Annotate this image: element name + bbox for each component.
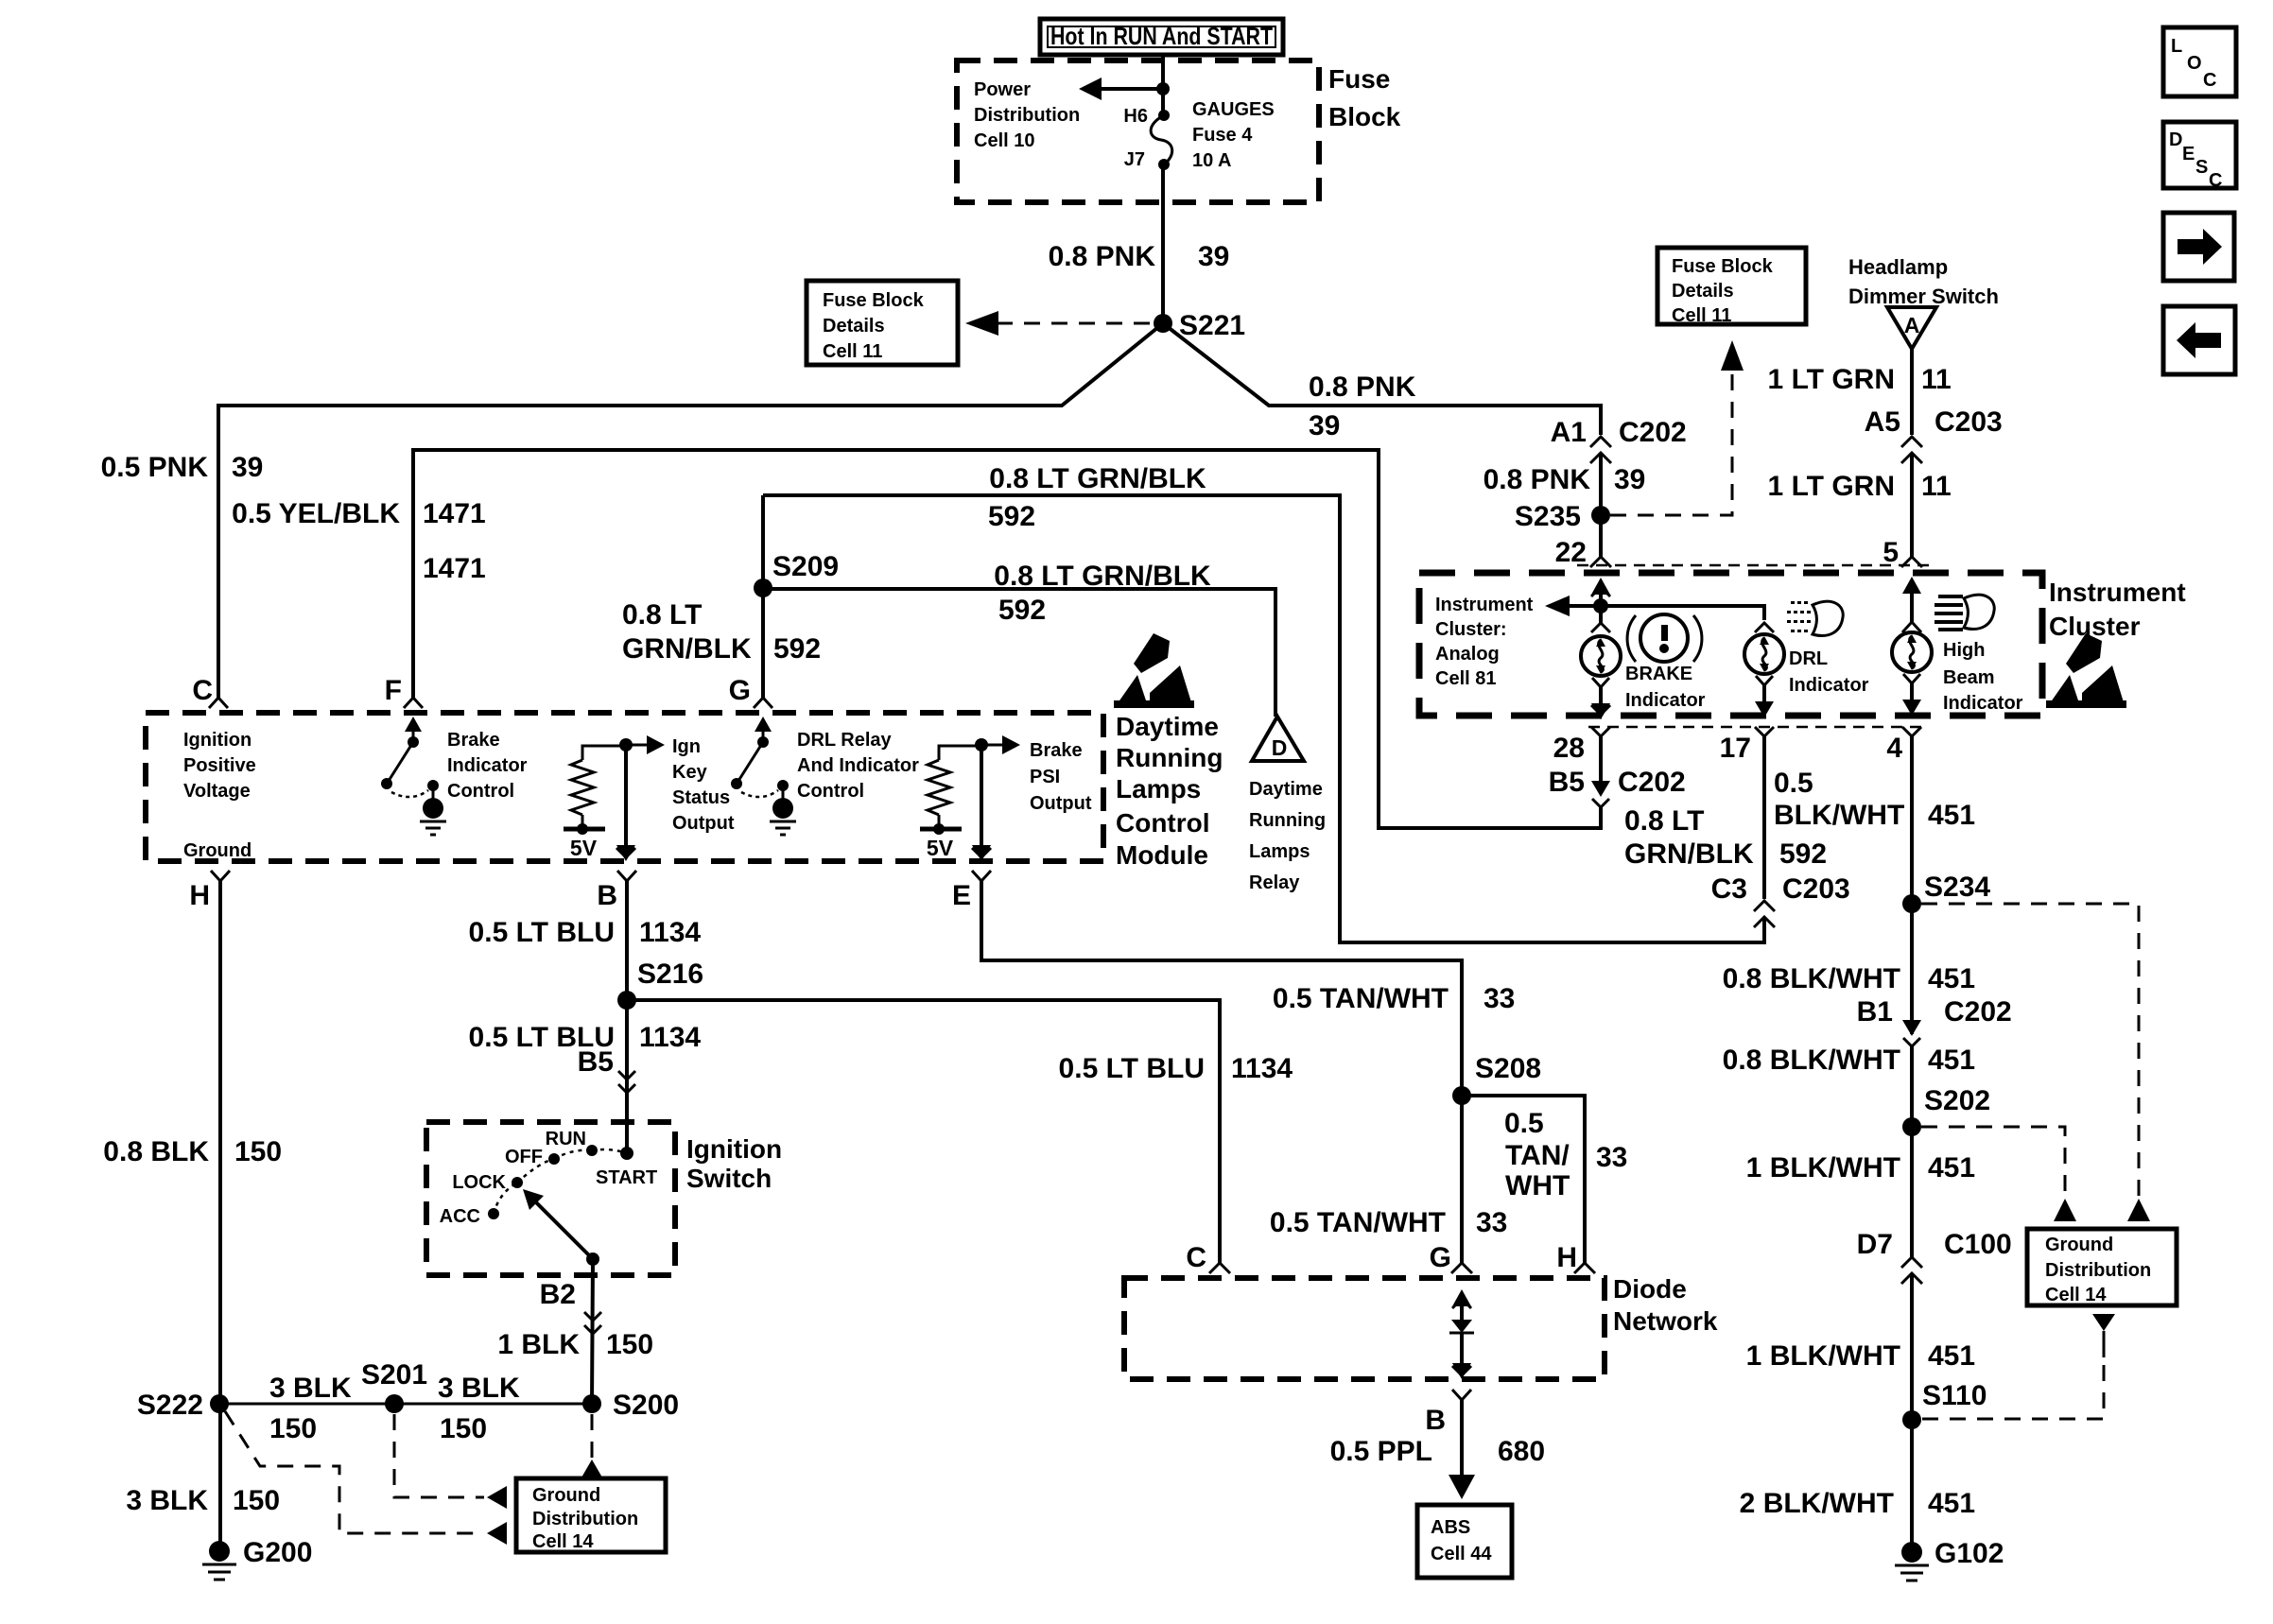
connector B2 xyxy=(540,1279,601,1334)
svg-text:Daytime: Daytime xyxy=(1249,779,1323,800)
terminal F of module xyxy=(385,675,423,708)
svg-text:451: 451 xyxy=(1928,1045,1975,1076)
connector C100 pin D7 xyxy=(1857,1229,2012,1284)
wire H to S222 0.8 BLK 150 xyxy=(218,881,222,1551)
svg-text:B: B xyxy=(597,880,617,911)
wire 0.8 PNK 39 below C202 xyxy=(1599,453,1603,557)
terminal G of diode network xyxy=(1430,1242,1472,1273)
svg-text:Ground: Ground xyxy=(2045,1235,2113,1255)
dashed ref S201 to ground distribution xyxy=(394,1414,507,1509)
svg-text:1 LT GRN: 1 LT GRN xyxy=(1768,471,1895,502)
svg-text:Lamps: Lamps xyxy=(1249,841,1310,862)
terminal 4 below cluster xyxy=(1886,727,1921,764)
svg-text:B2: B2 xyxy=(540,1279,576,1310)
svg-text:O: O xyxy=(2187,53,2202,74)
svg-text:Ground: Ground xyxy=(183,840,252,861)
BRAKE telltale symbol xyxy=(1627,614,1702,662)
svg-text:1 LT GRN: 1 LT GRN xyxy=(1768,364,1895,395)
svg-text:451: 451 xyxy=(1928,1488,1975,1519)
wire S221 left branch to C xyxy=(218,323,1163,698)
svg-text:B: B xyxy=(1425,1405,1446,1436)
svg-text:Ign: Ign xyxy=(672,736,701,757)
node S209 xyxy=(754,551,839,597)
svg-text:Fuse: Fuse xyxy=(1328,64,1390,94)
svg-text:1 BLK/WHT: 1 BLK/WHT xyxy=(1746,1340,1900,1372)
wire C3 down to DRL relay branch xyxy=(763,495,1764,942)
svg-text:C: C xyxy=(192,675,213,706)
svg-text:Status: Status xyxy=(672,787,730,808)
svg-text:Block: Block xyxy=(1328,102,1401,131)
svg-text:Control: Control xyxy=(1116,808,1210,838)
svg-text:Indicator: Indicator xyxy=(1943,693,2023,714)
High Beam lamp icon xyxy=(1935,595,1994,631)
svg-text:H: H xyxy=(189,880,210,911)
svg-text:S202: S202 xyxy=(1924,1085,1990,1116)
svg-text:S221: S221 xyxy=(1179,310,1245,341)
arrow to Power Distribution xyxy=(1079,78,1170,100)
node S216 xyxy=(617,959,703,1010)
svg-text:2 BLK/WHT: 2 BLK/WHT xyxy=(1740,1488,1894,1519)
svg-text:Analog: Analog xyxy=(1435,644,1500,665)
svg-text:680: 680 xyxy=(1498,1436,1545,1467)
svg-text:1 BLK: 1 BLK xyxy=(497,1329,580,1360)
svg-text:DRL Relay: DRL Relay xyxy=(797,730,893,751)
svg-text:150: 150 xyxy=(440,1413,487,1444)
svg-text:150: 150 xyxy=(234,1136,282,1167)
resistor (ign key status) xyxy=(564,746,626,860)
wire B to ignition switch 0.5 LT BLU 1134 xyxy=(625,881,629,1153)
svg-text:WHT: WHT xyxy=(1505,1170,1570,1201)
svg-text:Control: Control xyxy=(447,781,514,802)
svg-text:E: E xyxy=(952,880,971,911)
svg-text:S: S xyxy=(2195,157,2208,178)
wire S216 branch to diode network C xyxy=(627,1000,1220,1263)
svg-text:B1: B1 xyxy=(1857,996,1893,1028)
svg-text:1 BLK/WHT: 1 BLK/WHT xyxy=(1746,1152,1900,1183)
dashed ref S222 to ground distribution xyxy=(225,1411,507,1545)
svg-text:B5: B5 xyxy=(1549,767,1585,798)
svg-text:D7: D7 xyxy=(1857,1229,1893,1260)
svg-text:F: F xyxy=(385,675,402,706)
svg-text:Module: Module xyxy=(1116,840,1208,870)
svg-text:L: L xyxy=(2171,36,2182,57)
svg-text:B5: B5 xyxy=(578,1046,614,1078)
DRL indicator gauge driver xyxy=(1744,623,1784,717)
svg-text:C100: C100 xyxy=(1944,1229,2012,1260)
terminal G of module xyxy=(729,675,772,708)
svg-text:5: 5 xyxy=(1883,537,1899,568)
svg-text:Dimmer Switch: Dimmer Switch xyxy=(1848,285,1999,308)
nav icon DESC xyxy=(2163,122,2236,191)
svg-text:11: 11 xyxy=(1921,364,1952,395)
svg-text:GRN/BLK: GRN/BLK xyxy=(622,633,752,665)
svg-text:Running: Running xyxy=(1116,743,1223,772)
DRL lamp icon xyxy=(1787,601,1843,635)
dashed arrow S221 to Fuse Block Details xyxy=(965,311,1155,336)
node junction B output xyxy=(619,735,665,754)
BRAKE indicator gauge driver xyxy=(1581,606,1621,719)
svg-text:OFF: OFF xyxy=(505,1147,543,1167)
daytime running lamps relay triangle D xyxy=(1252,717,1304,761)
svg-text:Running: Running xyxy=(1249,810,1326,831)
svg-text:33: 33 xyxy=(1484,983,1515,1014)
svg-text:39: 39 xyxy=(232,452,263,483)
svg-text:START: START xyxy=(596,1167,657,1188)
wire 0.8 LT GRN/BLK 592 pin17 to C3 C203 xyxy=(1762,736,1766,899)
ground G102 xyxy=(1895,1538,2004,1581)
svg-text:33: 33 xyxy=(1476,1207,1507,1238)
svg-text:150: 150 xyxy=(269,1413,317,1444)
svg-text:Cell 44: Cell 44 xyxy=(1431,1544,1492,1564)
svg-text:28: 28 xyxy=(1553,733,1585,764)
svg-text:RUN: RUN xyxy=(546,1129,586,1149)
svg-text:Ignition: Ignition xyxy=(686,1134,782,1164)
svg-text:Beam: Beam xyxy=(1943,667,1994,688)
svg-text:S235: S235 xyxy=(1515,501,1581,532)
svg-text:0.8 LT: 0.8 LT xyxy=(622,599,702,631)
svg-text:0.5 YEL/BLK: 0.5 YEL/BLK xyxy=(232,498,400,529)
svg-text:Brake: Brake xyxy=(1030,740,1083,761)
terminal 22 into cluster xyxy=(1590,557,1611,567)
svg-text:A: A xyxy=(1904,313,1920,337)
svg-text:Distribution: Distribution xyxy=(532,1509,638,1529)
svg-text:G102: G102 xyxy=(1935,1538,2004,1569)
svg-text:Instrument: Instrument xyxy=(1435,595,1534,615)
svg-text:Indicator: Indicator xyxy=(1789,675,1869,696)
nav icon right arrow xyxy=(2163,213,2234,281)
svg-text:1471: 1471 xyxy=(423,553,486,584)
svg-text:D: D xyxy=(2169,130,2182,150)
wire 0.5 PPL 680 to ABS xyxy=(1449,1400,1475,1499)
svg-text:5V: 5V xyxy=(927,836,954,860)
svg-text:C: C xyxy=(1186,1242,1206,1273)
wire S221 right branch 0.8 PNK 39 xyxy=(1163,323,1601,435)
svg-text:C202: C202 xyxy=(1619,417,1687,448)
svg-text:Headlamp: Headlamp xyxy=(1848,255,1948,279)
connector B5 xyxy=(578,1046,635,1093)
svg-text:0.5: 0.5 xyxy=(1504,1108,1544,1139)
wire from Hot box into fuse block xyxy=(1161,55,1165,115)
wire B exit arrow xyxy=(616,745,635,861)
label box Fuse Block Details Cell 11 (right) xyxy=(1657,248,1806,326)
svg-text:150: 150 xyxy=(233,1485,280,1516)
connector C202 pin B1 xyxy=(1857,996,2012,1046)
svg-text:0.5 PNK: 0.5 PNK xyxy=(101,452,209,483)
node S200 xyxy=(582,1390,679,1421)
svg-text:Cluster:: Cluster: xyxy=(1435,619,1507,640)
svg-text:C202: C202 xyxy=(1944,996,2012,1028)
svg-text:5V: 5V xyxy=(570,836,598,860)
svg-text:High: High xyxy=(1943,640,1985,661)
terminal 28 below cluster xyxy=(1553,727,1610,764)
svg-text:C3: C3 xyxy=(1711,873,1747,905)
svg-text:H: H xyxy=(1556,1242,1577,1273)
svg-text:17: 17 xyxy=(1720,733,1751,764)
svg-text:451: 451 xyxy=(1928,1340,1975,1372)
svg-text:S200: S200 xyxy=(613,1390,679,1421)
svg-text:LOCK: LOCK xyxy=(452,1172,506,1193)
svg-text:0.8 LT GRN/BLK: 0.8 LT GRN/BLK xyxy=(989,463,1206,494)
svg-text:1134: 1134 xyxy=(1231,1053,1293,1084)
arrow to Instrument Cluster label xyxy=(1545,596,1600,616)
svg-text:Cell 11: Cell 11 xyxy=(823,341,882,362)
ESD symbol (cluster) xyxy=(2046,633,2126,708)
dashed ref S234 to ground distribution xyxy=(1921,904,2150,1221)
label box Hot In RUN And START xyxy=(1040,19,1283,55)
svg-text:BLK/WHT: BLK/WHT xyxy=(1774,800,1904,831)
diode network dashed box xyxy=(1124,1278,1605,1379)
terminal 17 below cluster xyxy=(1720,727,1774,764)
brake indicator control switch xyxy=(381,717,446,835)
svg-text:0.5 TAN/WHT: 0.5 TAN/WHT xyxy=(1270,1207,1446,1238)
connector C202 pin A1 xyxy=(1551,417,1687,463)
nav icon LOC xyxy=(2163,27,2236,96)
node S110 xyxy=(1902,1380,1987,1429)
resistor (brake psi) xyxy=(920,746,981,860)
svg-text:Instrument: Instrument xyxy=(2049,578,2186,607)
terminal C of diode network xyxy=(1186,1242,1230,1273)
fuse block dashed box xyxy=(957,60,1319,202)
terminal 5 into cluster xyxy=(1901,557,1922,567)
wire pin22 entry with up arrow xyxy=(1591,578,1610,606)
svg-text:0.5 LT BLU: 0.5 LT BLU xyxy=(1059,1053,1205,1084)
dashed arrow S235 to Fuse Block Details Cell 11 (right) xyxy=(1610,340,1744,515)
wire 0.5 YEL/BLK from pin28 through C202 B5 to F xyxy=(413,450,1610,828)
svg-text:Cell 10: Cell 10 xyxy=(974,130,1034,151)
svg-text:Ignition: Ignition xyxy=(183,730,252,751)
svg-text:Key: Key xyxy=(672,762,708,783)
ignition switch dashed box xyxy=(426,1122,675,1275)
svg-text:0.8 PNK: 0.8 PNK xyxy=(1484,464,1591,495)
svg-text:0.8 PNK: 0.8 PNK xyxy=(1049,241,1156,272)
svg-text:Indicator: Indicator xyxy=(1625,690,1706,711)
svg-text:451: 451 xyxy=(1928,963,1975,994)
svg-text:ABS: ABS xyxy=(1431,1517,1470,1538)
wire junction to DRL indicator xyxy=(1601,606,1764,620)
svg-text:0.5 TAN/WHT: 0.5 TAN/WHT xyxy=(1273,983,1449,1014)
node S201 xyxy=(361,1359,427,1413)
svg-text:S216: S216 xyxy=(637,959,703,990)
ground G200 xyxy=(202,1537,312,1580)
svg-text:4: 4 xyxy=(1886,733,1902,764)
ground bus wire S222 S201 S200 xyxy=(219,1403,592,1406)
svg-text:G200: G200 xyxy=(243,1537,312,1568)
wire B2 down to S200 1 BLK 150 xyxy=(592,1259,593,1404)
svg-text:10 A: 10 A xyxy=(1192,150,1232,171)
svg-text:0.5 LT BLU: 0.5 LT BLU xyxy=(469,917,615,948)
svg-text:0.8 PNK: 0.8 PNK xyxy=(1309,371,1416,403)
DRL control module dashed box xyxy=(146,713,1103,861)
svg-text:22: 22 xyxy=(1555,537,1587,568)
svg-text:GRN/BLK: GRN/BLK xyxy=(1624,838,1754,870)
svg-text:E: E xyxy=(2182,144,2195,164)
wire 1 BLK/WHT 451 below C100 xyxy=(1910,1273,1914,1551)
svg-text:0.8 BLK/WHT: 0.8 BLK/WHT xyxy=(1723,1045,1900,1076)
wire S209 to DRL relay xyxy=(763,589,1275,717)
svg-text:1471: 1471 xyxy=(423,498,486,529)
terminal H of module xyxy=(189,871,230,911)
svg-text:And Indicator: And Indicator xyxy=(797,755,919,776)
wire S208 loop to H xyxy=(1462,1096,1585,1263)
headlamp dimmer switch triangle A xyxy=(1887,307,1936,349)
wire 0.5 BLK/WHT 451 pin4 down xyxy=(1910,736,1914,1021)
svg-text:TAN/: TAN/ xyxy=(1505,1140,1570,1171)
terminal C of module xyxy=(192,675,228,708)
svg-text:H6: H6 xyxy=(1123,106,1148,127)
connector row dashed line (bottom of cluster) xyxy=(1588,726,1925,729)
svg-text:PSI: PSI xyxy=(1030,767,1060,787)
svg-text:C203: C203 xyxy=(1935,406,2003,438)
wire 0.8 PNK 39 from fuse to S221 xyxy=(1161,164,1165,323)
svg-text:Fuse 4: Fuse 4 xyxy=(1192,125,1253,146)
svg-text:BRAKE: BRAKE xyxy=(1625,664,1692,684)
svg-text:592: 592 xyxy=(998,595,1046,626)
svg-text:Fuse Block: Fuse Block xyxy=(823,290,925,311)
svg-text:0.5: 0.5 xyxy=(1774,768,1813,799)
svg-text:592: 592 xyxy=(1779,838,1827,870)
svg-text:39: 39 xyxy=(1309,410,1340,441)
svg-text:Cell 14: Cell 14 xyxy=(532,1531,594,1552)
svg-text:0.8 LT GRN/BLK: 0.8 LT GRN/BLK xyxy=(994,561,1211,592)
svg-text:Network: Network xyxy=(1613,1306,1718,1336)
svg-text:A5: A5 xyxy=(1865,406,1900,438)
label box Fuse Block Details Cell 11 (left) xyxy=(807,281,958,365)
svg-text:592: 592 xyxy=(988,501,1035,532)
wire 1 LT GRN 11 from dimmer xyxy=(1910,349,1914,435)
svg-text:C: C xyxy=(2203,70,2216,91)
ignition switch blade xyxy=(523,1189,599,1266)
svg-text:ACC: ACC xyxy=(440,1206,480,1227)
svg-text:39: 39 xyxy=(1198,241,1229,272)
node S202 xyxy=(1902,1085,1990,1136)
svg-text:1134: 1134 xyxy=(639,917,701,948)
svg-text:Output: Output xyxy=(672,813,735,834)
svg-text:A1: A1 xyxy=(1551,417,1587,448)
nav icon left arrow xyxy=(2163,306,2235,374)
svg-text:Details: Details xyxy=(1672,281,1734,302)
svg-text:C203: C203 xyxy=(1782,873,1850,905)
instrument cluster dashed box xyxy=(1419,573,2042,716)
svg-text:S208: S208 xyxy=(1475,1053,1541,1084)
svg-text:Power: Power xyxy=(974,79,1031,100)
svg-text:Brake: Brake xyxy=(447,730,500,751)
wire E branch to S208 0.5 TAN/WHT 33 xyxy=(981,881,1462,1263)
svg-text:150: 150 xyxy=(606,1329,653,1360)
svg-text:Voltage: Voltage xyxy=(183,781,251,802)
svg-text:G: G xyxy=(729,675,751,706)
svg-text:0.8 BLK/WHT: 0.8 BLK/WHT xyxy=(1723,963,1900,994)
dashed ref S202 to ground distribution xyxy=(1921,1127,2076,1221)
svg-text:Details: Details xyxy=(823,316,885,337)
label box ABS Cell 44 xyxy=(1417,1505,1512,1578)
svg-text:GAUGES: GAUGES xyxy=(1192,99,1275,120)
node S234 xyxy=(1902,872,1990,913)
svg-text:S110: S110 xyxy=(1922,1380,1987,1411)
svg-text:1134: 1134 xyxy=(639,1022,701,1053)
svg-text:3 BLK: 3 BLK xyxy=(438,1373,520,1404)
svg-text:0.8 BLK: 0.8 BLK xyxy=(103,1136,209,1167)
node S208 xyxy=(1452,1053,1541,1105)
svg-text:Ground: Ground xyxy=(532,1485,600,1506)
fuse F4 GAUGES 10A xyxy=(1151,110,1172,170)
svg-text:C: C xyxy=(2209,170,2222,191)
node S221 xyxy=(1154,310,1245,341)
svg-text:Cell 14: Cell 14 xyxy=(2045,1285,2107,1305)
connector C203 pin C3 xyxy=(1711,873,1850,927)
svg-text:451: 451 xyxy=(1928,800,1975,831)
diode with wire xyxy=(1449,1289,1474,1379)
svg-text:39: 39 xyxy=(1614,464,1645,495)
svg-text:DRL: DRL xyxy=(1789,648,1828,669)
svg-text:Positive: Positive xyxy=(183,755,256,776)
High Beam indicator gauge driver xyxy=(1892,577,1932,716)
svg-text:451: 451 xyxy=(1928,1152,1975,1183)
svg-text:Hot In RUN And START: Hot In RUN And START xyxy=(1050,22,1273,50)
svg-text:Distribution: Distribution xyxy=(974,105,1080,126)
svg-text:J7: J7 xyxy=(1124,149,1145,170)
dashed ref S200 to ground distribution xyxy=(581,1414,602,1477)
ignition switch rotary contacts xyxy=(440,1129,658,1227)
svg-text:Diode: Diode xyxy=(1613,1274,1687,1304)
svg-text:592: 592 xyxy=(773,633,821,665)
svg-text:Indicator: Indicator xyxy=(447,755,528,776)
svg-text:Daytime: Daytime xyxy=(1116,712,1219,741)
svg-text:11: 11 xyxy=(1921,471,1952,502)
terminal B of diode network xyxy=(1425,1390,1471,1436)
wire 0.8 BLK/WHT 451 below B1 xyxy=(1910,1046,1914,1257)
svg-text:Control: Control xyxy=(797,781,864,802)
node S222 xyxy=(137,1390,229,1421)
svg-text:0.5 PPL: 0.5 PPL xyxy=(1330,1436,1432,1467)
svg-text:Distribution: Distribution xyxy=(2045,1260,2151,1281)
node junction in cluster xyxy=(1593,598,1608,613)
svg-text:Switch: Switch xyxy=(686,1164,772,1193)
svg-text:3 BLK: 3 BLK xyxy=(126,1485,208,1516)
node S235 xyxy=(1515,501,1610,532)
svg-text:33: 33 xyxy=(1596,1142,1627,1173)
dashed ref S110 to ground distribution xyxy=(1922,1314,2115,1419)
ground distribution cell 14 box (left) xyxy=(516,1478,666,1552)
svg-text:Cluster: Cluster xyxy=(2049,612,2141,641)
svg-text:G: G xyxy=(1430,1242,1451,1273)
terminal E of module xyxy=(952,871,991,911)
node junction E output xyxy=(975,735,1020,754)
svg-text:Cell 81: Cell 81 xyxy=(1435,668,1496,689)
svg-text:Cell 11: Cell 11 xyxy=(1672,305,1731,326)
terminal H of diode network xyxy=(1556,1242,1595,1273)
wire 1 LT GRN 11 below C203 xyxy=(1910,453,1914,557)
svg-text:0.8 LT: 0.8 LT xyxy=(1624,805,1704,837)
wire G leg of DRL module xyxy=(761,495,765,698)
connector C203 pin A5 xyxy=(1865,406,2003,463)
svg-text:Relay: Relay xyxy=(1249,872,1300,893)
DRL relay and indicator control switch xyxy=(731,717,796,835)
svg-text:C202: C202 xyxy=(1618,767,1686,798)
svg-text:Output: Output xyxy=(1030,793,1092,814)
svg-text:S222: S222 xyxy=(137,1390,203,1421)
ground distribution cell 14 box (right) xyxy=(2027,1229,2177,1305)
svg-text:3 BLK: 3 BLK xyxy=(269,1373,352,1404)
svg-text:S201: S201 xyxy=(361,1359,427,1391)
svg-text:D: D xyxy=(1272,735,1288,760)
wire E exit arrow xyxy=(972,745,991,861)
connector row dashed line (top of cluster) xyxy=(1577,564,1929,567)
svg-text:S209: S209 xyxy=(772,551,839,582)
svg-text:Fuse Block: Fuse Block xyxy=(1672,256,1774,277)
svg-text:Lamps: Lamps xyxy=(1116,774,1201,803)
svg-text:S234: S234 xyxy=(1924,872,1990,903)
terminal B of module xyxy=(597,871,636,911)
